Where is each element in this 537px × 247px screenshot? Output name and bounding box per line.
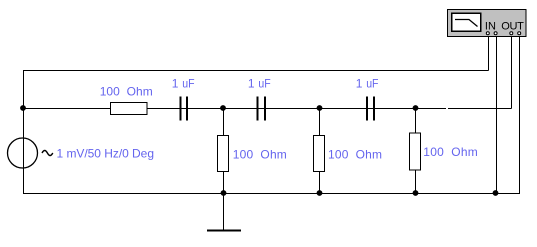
bode plotter XBP1 body	[448, 10, 527, 37]
svg-text:IN: IN	[485, 21, 496, 33]
capacitor C1 1uF plates	[180, 97, 189, 121]
terminal OUT+	[510, 32, 513, 35]
wire left vertical from top rail through source to bottom rail	[23, 71, 25, 194]
wire branch 2 top stub	[319, 109, 321, 136]
node junction dot left main rail	[20, 105, 26, 111]
wire branch 3 top stub	[415, 109, 417, 134]
node junction dot branch 3 top	[413, 105, 419, 111]
resistor R4 100 Ohm shunt 3 body	[410, 133, 421, 170]
wire top rail	[23, 70, 489, 72]
node junction dot ground	[221, 190, 227, 196]
svg-text:1: 1	[248, 77, 255, 91]
svg-text:1: 1	[172, 77, 179, 91]
wire branch 1 top stub	[223, 109, 225, 136]
wire main rail segment A (node V1 to gap)	[23, 108, 446, 110]
node junction dot branch 1 top	[220, 105, 226, 111]
svg-text:100 Ohm: 100 Ohm	[100, 85, 153, 99]
svg-text:1: 1	[356, 77, 363, 91]
wire OUT- drop from bode plotter to bottom rail	[519, 35, 521, 194]
svg-text:100 Ohm: 100 Ohm	[233, 148, 287, 162]
capacitor C3 1uF plates	[366, 97, 375, 121]
svg-text:OUT: OUT	[501, 21, 524, 33]
AC source V1 circle	[8, 138, 38, 168]
wire OUT+ drop from bode plotter to main rail	[511, 35, 513, 109]
bode plotter screen	[453, 14, 480, 30]
wire IN+ drop from bode plotter to top rail	[488, 35, 490, 71]
terminal IN-	[494, 32, 497, 35]
resistor R2 100 Ohm shunt 1 body	[218, 136, 229, 172]
svg-text:uF: uF	[258, 77, 270, 91]
wire bottom ground rail	[23, 193, 520, 195]
resistor R1 100 Ohm series body	[111, 103, 148, 115]
bode plotter screen frame	[451, 13, 482, 33]
node junction dot branch 2 bottom	[317, 190, 323, 196]
bode plotter response curve	[455, 20, 478, 27]
node junction dot branch 3 bottom	[413, 190, 419, 196]
svg-text:uF: uF	[366, 77, 378, 91]
wire branch 3 bottom stub	[415, 170, 417, 194]
node junction dot branch 2 top	[317, 105, 323, 111]
svg-text:uF: uF	[182, 77, 194, 91]
AC source sine tilde symbol	[42, 151, 53, 156]
wire branch 2 bottom stub	[319, 172, 321, 194]
wire IN- drop from bode plotter to bottom rail	[496, 35, 498, 194]
ground symbol bar	[207, 230, 241, 232]
resistor R3 100 Ohm shunt 2 body	[314, 136, 325, 172]
wire branch 1 bottom stub	[223, 172, 225, 194]
wire main rail segment B (gap to OUT+)	[448, 108, 512, 110]
terminal IN+	[486, 32, 489, 35]
terminal OUT-	[518, 32, 521, 35]
capacitor C2 1uF plates	[257, 97, 267, 121]
wire ground stem	[223, 194, 225, 231]
svg-text:100 Ohm: 100 Ohm	[328, 148, 382, 162]
svg-text:100 Ohm: 100 Ohm	[423, 145, 478, 159]
svg-text:1 mV/50 Hz/0 Deg: 1 mV/50 Hz/0 Deg	[57, 147, 155, 161]
node junction dot IN- bottom	[493, 190, 499, 196]
